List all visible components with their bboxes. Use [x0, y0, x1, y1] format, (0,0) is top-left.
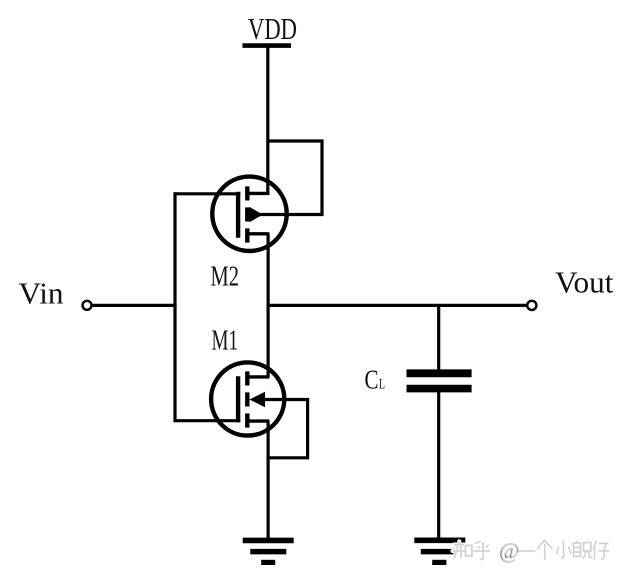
wire capacitor bottom plate to ground	[437, 392, 440, 541]
M2 drain stub	[247, 192, 269, 195]
wire M1 drain up to output node	[267, 304, 270, 377]
wire M2 gate	[175, 192, 240, 195]
transistor M2	[212, 177, 286, 251]
M1 channel segment drain	[245, 371, 249, 385]
M2 channel segment drain	[245, 186, 249, 200]
terminal Vin	[83, 301, 92, 310]
M1 gate bar	[236, 376, 240, 422]
svg-text:@: @	[499, 538, 519, 563]
M2 body circle	[212, 177, 286, 251]
svg-text:Vin: Vin	[19, 276, 65, 311]
wire M1 bulk-source tie loop	[262, 400, 308, 458]
power rail VDD bar	[243, 43, 292, 48]
wire net VDD vertical to M2 drain	[266, 46, 269, 195]
watermark text white underlay	[453, 538, 610, 563]
svg-text:Vout: Vout	[555, 265, 614, 300]
M2 source stub	[247, 232, 269, 235]
wire output node to capacitor top plate	[437, 304, 440, 371]
wire net Vin horizontal	[92, 304, 177, 307]
wire M2 drain-bulk tie loop	[260, 141, 322, 215]
wire net Vin input rail vertical	[173, 192, 176, 422]
M1 channel segment bulk	[245, 392, 249, 406]
M2 gate bar	[236, 192, 240, 238]
ground GND1	[243, 540, 294, 562]
M2 channel segment source	[245, 228, 249, 242]
svg-text:M1: M1	[212, 325, 239, 357]
watermark text gray outline	[453, 538, 610, 563]
ground GND2	[414, 540, 465, 562]
M1 bulk arrow	[249, 392, 265, 408]
svg-text:VDD: VDD	[248, 11, 297, 46]
transistor M1	[211, 362, 284, 435]
M2 bulk arrow	[250, 207, 263, 222]
M1 source stub	[247, 419, 269, 422]
wire M2 source down to output node	[267, 234, 270, 307]
wire M1 gate	[175, 419, 240, 422]
terminal Vout	[527, 301, 536, 310]
svg-text:M2: M2	[211, 261, 240, 293]
M1 channel segment source	[245, 413, 249, 427]
M2 channel segment bulk	[245, 207, 249, 221]
capacitor CL	[407, 373, 472, 388]
M1 drain stub	[247, 375, 269, 378]
svg-text:L: L	[379, 377, 385, 393]
wire M1 source to ground	[267, 421, 270, 540]
svg-text:C: C	[365, 364, 379, 395]
wire net Vout horizontal	[268, 304, 527, 307]
M1 body circle	[211, 362, 284, 435]
